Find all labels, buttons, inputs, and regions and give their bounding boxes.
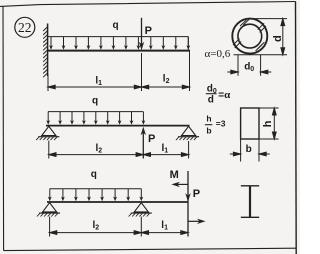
- tube d0 extension lines: [237, 55, 239, 76]
- svg-text:=α: =α: [218, 89, 231, 101]
- svg-text:P: P: [148, 133, 155, 145]
- rectangle dimension b arrows: [230, 152, 270, 156]
- beam 3 distributed load line q: [50, 188, 142, 190]
- beam 1 extension line right: [189, 52, 191, 92]
- tube top tangent line: [248, 18, 288, 20]
- beam 2 force P upward: [141, 127, 146, 159]
- beam 3 dimension line l2: [50, 231, 142, 235]
- tube dimension d0 arrows: [227, 70, 271, 74]
- beam 3 dimension line l1: [141, 231, 188, 235]
- beam 2: [46, 125, 190, 127]
- beam 1 distributed load arrows: [49, 37, 190, 50]
- beam 3 moment M arrow: [171, 182, 188, 187]
- beam 3 distributed load arrows: [48, 189, 143, 202]
- beam 3 extension line middle: [140, 217, 142, 237]
- svg-text:22: 22: [18, 20, 32, 35]
- beam 1 dimension line l1: [48, 85, 142, 89]
- beam 3 force P line at free end: [185, 171, 190, 237]
- svg-text:q: q: [92, 96, 98, 107]
- tube cross-section hatching: [233, 19, 266, 51]
- svg-text:d: d: [208, 94, 214, 105]
- beam 3 middle pin support: [129, 203, 152, 217]
- frame top border: [0, 2, 296, 7]
- formula h/b = 3: [205, 113, 226, 135]
- svg-text:α=0,6: α=0,6: [205, 48, 231, 60]
- beam 1: [48, 50, 190, 52]
- rectangle b extension lines: [240, 139, 242, 162]
- beam 3 extension line left: [49, 217, 51, 237]
- beam 2 extension line right: [188, 141, 190, 159]
- tube dimension d: [281, 19, 285, 55]
- rectangle bottom extension line: [259, 138, 279, 140]
- svg-text:b: b: [246, 144, 252, 155]
- frame left border: [2, 7, 5, 251]
- beam 1 extension line middle: [141, 53, 143, 91]
- formula d0/d = alpha: [206, 84, 231, 106]
- beam 2 dimension line l1: [143, 153, 188, 157]
- beam 1 distributed load line q: [48, 36, 189, 38]
- svg-text:P: P: [145, 25, 152, 37]
- beam 2 distributed load line q: [48, 111, 143, 113]
- beam 3: [47, 201, 188, 203]
- svg-text:q: q: [113, 20, 119, 31]
- beam 1 extension line left: [47, 74, 49, 91]
- beam 2 extension line left: [48, 141, 50, 159]
- beam 2 right pin support: [176, 126, 199, 140]
- rectangle dimension h: [272, 108, 276, 139]
- svg-text:q: q: [91, 169, 97, 180]
- I-beam cross-section symbol: [241, 186, 259, 218]
- svg-text:h: h: [206, 113, 211, 123]
- frame bottom border: [4, 248, 297, 250]
- tube cross-section outer circle: [232, 19, 267, 54]
- beam 2 dimension line l2: [49, 153, 144, 157]
- beam 1 force P: [139, 18, 144, 51]
- svg-text:M: M: [170, 169, 179, 181]
- rectangle top extension line: [259, 107, 279, 109]
- beam 3 horizontal arrow right at free end: [188, 219, 205, 224]
- svg-text:b: b: [206, 126, 211, 136]
- svg-text:P: P: [193, 188, 200, 200]
- tube bottom tangent line: [234, 54, 288, 56]
- svg-text:=3: =3: [216, 119, 226, 129]
- tube cross-section inner circle: [238, 24, 262, 48]
- rectangle cross-section: [241, 108, 259, 139]
- beam 1 fixed wall support: [43, 24, 47, 78]
- beam 2 distributed load arrows: [46, 112, 145, 125]
- beam 1 dimension line l2: [142, 85, 190, 89]
- svg-text:d: d: [272, 35, 284, 42]
- svg-text:h: h: [262, 120, 274, 127]
- task number 22 badge: [15, 17, 35, 37]
- beam 3 left pin support: [37, 203, 60, 217]
- beam 2 left pin support: [36, 126, 59, 140]
- frame right border: [295, 2, 298, 254]
